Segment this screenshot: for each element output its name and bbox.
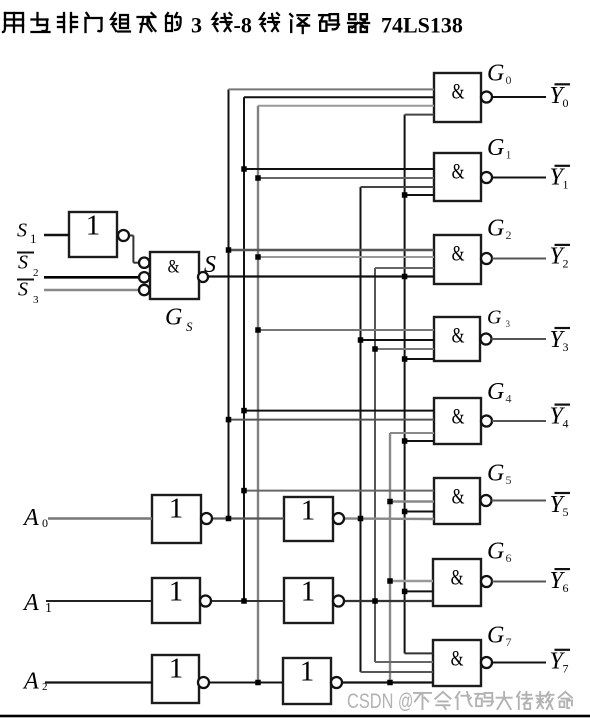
svg-text:4: 4: [506, 391, 512, 405]
svg-text:A: A: [22, 590, 39, 616]
svg-text:&: &: [451, 566, 464, 590]
svg-text:3: 3: [33, 294, 39, 306]
svg-text:74LS138: 74LS138: [381, 13, 463, 38]
svg-text:G: G: [487, 460, 504, 486]
svg-text:S: S: [186, 319, 193, 334]
svg-text:1: 1: [301, 576, 316, 608]
svg-text:7: 7: [506, 635, 512, 649]
svg-text:2: 2: [563, 257, 569, 271]
svg-text:&: &: [452, 405, 465, 429]
svg-text:1: 1: [169, 576, 184, 608]
svg-text:1: 1: [45, 601, 52, 616]
svg-text:A: A: [22, 669, 39, 695]
svg-text:3: 3: [563, 340, 569, 354]
svg-text:0: 0: [506, 73, 512, 87]
svg-text:&: &: [452, 160, 465, 184]
svg-text:S: S: [204, 252, 216, 278]
svg-text:1: 1: [506, 147, 512, 161]
svg-text:7: 7: [563, 662, 569, 676]
svg-text:6: 6: [506, 551, 512, 565]
svg-text:&: &: [168, 256, 180, 277]
svg-text:G: G: [487, 379, 504, 405]
svg-text:G: G: [487, 61, 504, 87]
svg-text:S: S: [18, 279, 28, 301]
svg-text:@: @: [398, 688, 413, 712]
svg-text:-8: -8: [234, 13, 252, 38]
svg-text:&: &: [452, 324, 465, 348]
svg-text:A: A: [22, 505, 39, 531]
svg-text:1: 1: [301, 495, 316, 527]
svg-text:S: S: [18, 252, 28, 274]
svg-text:S: S: [17, 220, 27, 242]
svg-text:2: 2: [42, 681, 48, 693]
svg-text:1: 1: [30, 231, 37, 246]
svg-text:3: 3: [506, 319, 511, 329]
svg-text:G: G: [487, 216, 504, 242]
svg-text:0: 0: [42, 516, 48, 530]
svg-text:3: 3: [191, 13, 202, 38]
svg-text:&: &: [452, 485, 465, 509]
svg-text:6: 6: [563, 581, 569, 595]
svg-text:&: &: [452, 80, 465, 104]
svg-text:1: 1: [169, 653, 184, 685]
svg-text:&: &: [452, 242, 465, 266]
svg-text:5: 5: [506, 473, 512, 487]
svg-text:0: 0: [563, 96, 569, 110]
svg-text:1: 1: [300, 656, 315, 688]
svg-text:G: G: [487, 135, 504, 161]
svg-text:G: G: [487, 622, 504, 648]
svg-text:2: 2: [506, 228, 512, 242]
svg-text:4: 4: [563, 416, 569, 430]
svg-text:G: G: [487, 538, 504, 564]
svg-text:G: G: [487, 306, 502, 328]
svg-text:5: 5: [563, 505, 569, 519]
svg-text:G: G: [165, 304, 182, 330]
svg-text:1: 1: [86, 210, 101, 242]
svg-text:&: &: [451, 647, 464, 671]
svg-text:2: 2: [33, 267, 39, 279]
svg-text:1: 1: [563, 178, 569, 192]
svg-text:CSDN: CSDN: [347, 689, 393, 712]
svg-text:1: 1: [169, 493, 184, 525]
